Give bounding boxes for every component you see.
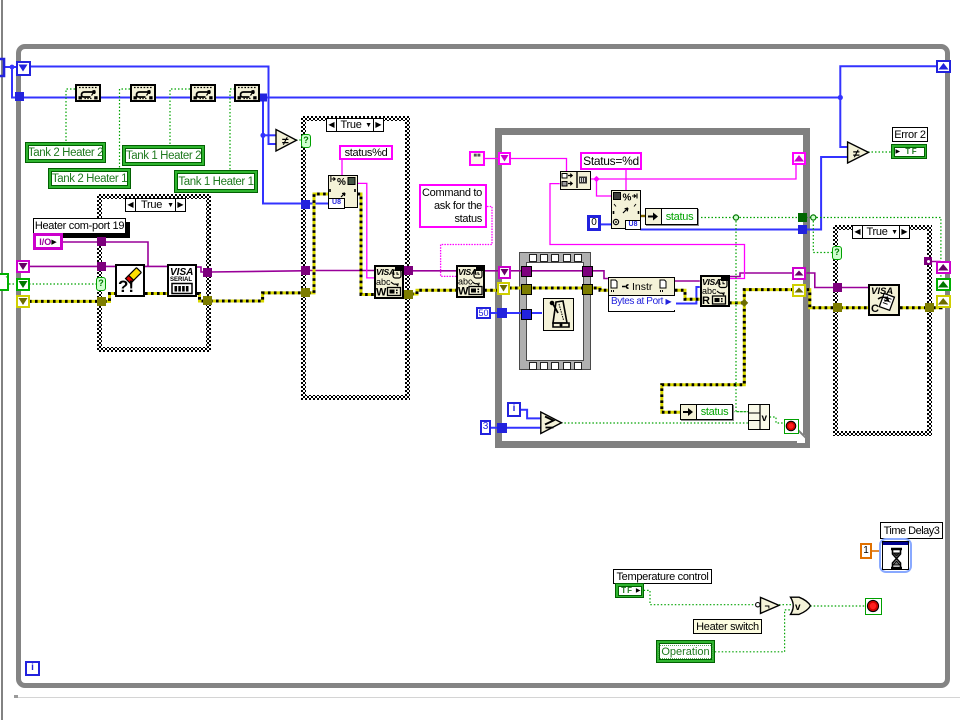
indicator local status 1 xyxy=(645,208,698,225)
wire: purple VISA write2 to frame tunnel xyxy=(484,270,499,272)
right shift register green (up arrow) xyxy=(936,278,951,291)
wire: blue 50 constant into frame and sequence xyxy=(490,312,542,314)
tunnel case selector question mark case3 xyxy=(832,246,842,260)
wire: purple frame tunnel to sequence xyxy=(509,270,522,272)
clipped terminal at left edge xyxy=(0,57,8,79)
node: pink junction diamond xyxy=(593,176,599,182)
node VISA Write 2 xyxy=(456,265,485,298)
local variable Tank 2 Heater 2 xyxy=(75,84,101,102)
label Error 2 xyxy=(892,127,928,142)
label Tank 1 Heater 2 xyxy=(122,145,205,166)
wire: pink status-percent-d label to format node xyxy=(341,160,343,175)
wire: blue top from shift register A xyxy=(30,67,276,145)
constant 1 (orange) xyxy=(860,543,872,559)
tunnel olive on case1 right xyxy=(203,296,212,305)
tunnel purple frame right (up arrow) xyxy=(792,267,806,280)
node: junction dot x263 at not-equal branch xyxy=(260,133,265,138)
wire: blue iteration i to greater-equal xyxy=(521,410,541,419)
wire: pink frame tunnel to string-to-byte node xyxy=(509,159,567,172)
case structure 3 (True) border xyxy=(833,225,932,436)
window bottom notch xyxy=(14,695,18,698)
wire: pink string node output to frame right tunnel xyxy=(591,163,796,179)
label Temperature control xyxy=(613,569,712,584)
wire: blue down to not-equal 2 upper input xyxy=(840,98,847,148)
wire: pink junction down to scan input xyxy=(597,179,612,196)
wire: green dotted branch down to build array xyxy=(736,218,748,412)
control Temperature control TF xyxy=(615,583,644,598)
wire: green dotted status2 to build array xyxy=(733,411,748,413)
wire: purple inside sequence xyxy=(527,270,584,272)
node VISA Configure Serial Port xyxy=(167,264,197,297)
wire: green dotted shift register to case1 selector xyxy=(29,283,96,285)
wire: yellow error VISA read to junction xyxy=(729,301,744,304)
wire: yellow error case2 to VISA write2 xyxy=(411,290,456,294)
wire: blue main horizontal through local variables xyxy=(22,97,840,99)
wire: yellow error case3 to right shift register xyxy=(933,302,941,308)
tunnel blue square frame left xyxy=(497,308,507,318)
tunnel purple frame left (down arrow) xyxy=(498,266,511,279)
gray frame (decoration) around middle section xyxy=(495,128,810,448)
wire: green dotted local variable 4 drop xyxy=(230,89,235,170)
node: yellow junction diamond xyxy=(740,299,748,307)
wire: blue vertical at x263 down to case 2 tunnel xyxy=(263,98,301,204)
wire: yellow error clear errors to VISA serial xyxy=(145,292,167,295)
tunnel olive case3 right xyxy=(925,303,934,312)
gate: OR xyxy=(791,597,811,614)
node: blue junction dot at left xyxy=(10,65,15,70)
tunnel purple on case2 right xyxy=(404,266,413,275)
wire: purple sequence to property node xyxy=(588,271,608,279)
wire: purple case3 top right to shift register xyxy=(930,262,940,267)
wire: green dotted Operation to OR gate xyxy=(715,610,792,652)
wire: purple frame to case3 tunnel xyxy=(807,273,835,288)
indicator Error 2 TF xyxy=(891,144,927,159)
wire: yellow error case1 to case2 xyxy=(210,293,302,301)
tunnel case selector question mark case2 xyxy=(301,134,311,148)
tunnel blue sequence left xyxy=(521,309,532,320)
tunnel olive on case2 left xyxy=(301,288,310,297)
svg-text:W: W xyxy=(376,287,387,298)
constant 50 xyxy=(476,307,491,319)
wire: green dotted temperature control to NOT gate xyxy=(644,590,755,604)
wire: green dotted frame tunnel across to right shift register xyxy=(806,218,941,279)
wire: blue Bytes at Port to VISA read count xyxy=(675,287,700,304)
gate: not-equal 1 xyxy=(276,130,297,152)
window bottom faint line xyxy=(14,697,960,698)
svg-text:R: R xyxy=(702,295,710,305)
case structure 2 (True) border xyxy=(301,116,410,400)
filmstrip sprocket holes bottom xyxy=(529,362,537,370)
right shift register yellow (up arrow) xyxy=(936,295,951,308)
wire: blue into case2 U8 input xyxy=(305,203,328,205)
wire: purple case3 to VISA close xyxy=(840,287,868,289)
svg-text:abc: abc xyxy=(376,277,391,287)
case3 selector label True xyxy=(852,225,910,239)
svg-text:SERIAL: SERIAL xyxy=(170,277,192,283)
tunnel olive on case2 right xyxy=(404,290,413,299)
wire: yellow error junction up to frame right tunnel xyxy=(744,290,793,303)
wire: yellow error junction down around to status local xyxy=(662,303,745,412)
label Tank 1 Heater 1 xyxy=(174,170,258,193)
case structure 1 (True) border xyxy=(97,194,211,352)
wire: yellow error VISA write2 to frame tunnel xyxy=(484,289,499,292)
wire: green dotted NOT gate to OR gate xyxy=(779,604,793,606)
wire: pink format node output down to VISA write1 xyxy=(358,183,375,278)
tunnel blue frame left lower xyxy=(497,423,507,433)
tunnel olive sequence right xyxy=(582,284,593,295)
iteration terminal i inside frame xyxy=(507,402,521,417)
tunnel purple on case1 left (upper) xyxy=(97,237,106,246)
clipped green boolean at left edge xyxy=(0,273,9,291)
node: green junction circle right xyxy=(811,215,816,220)
wire: green dotted local variable 2 drop xyxy=(120,89,131,168)
tunnel olive frame left (down arrow) xyxy=(497,282,510,295)
wire: olive scan value output to status indicator xyxy=(640,215,646,217)
wire: purple left shift register to case1 xyxy=(29,265,97,267)
wire: purple property node to VISA read xyxy=(675,280,700,282)
wire: pink command label S-path to VISA write2 xyxy=(441,207,492,277)
svg-text:v: v xyxy=(761,413,767,424)
gate: NOT xyxy=(756,597,779,613)
tunnel purple case3 left xyxy=(833,283,842,292)
wire: blue status byte to not-equal 2 lower input xyxy=(807,157,848,230)
wire: blue to not-equal 1 upper input xyxy=(263,134,276,136)
iteration terminal i of while loop xyxy=(25,661,40,676)
gate: not-equal 2 xyxy=(848,142,869,163)
wire: purple VISA read to frame right tunnel xyxy=(729,273,793,277)
wire: yellow error format node down to VISA write1 xyxy=(358,194,375,295)
wire: blue up to right shift register xyxy=(840,66,936,97)
wire: yellow error VISA close to case3 right tunnel xyxy=(900,306,926,309)
wire: yellow error inside case1 to clear errors xyxy=(104,294,115,302)
wire: green dotted OR gate to stop terminal xyxy=(810,605,865,607)
svg-text:%: % xyxy=(623,193,632,204)
tunnel olive sequence left xyxy=(521,284,532,295)
wire: green dotted local variable 1 drop xyxy=(66,89,75,142)
node Clear Errors (question-exclamation with eraser) xyxy=(115,264,145,297)
tunnel olive frame right (up arrow) xyxy=(792,284,806,297)
wire: green dotted greater-equal to build array input 2 xyxy=(561,422,748,424)
case2 selector label True xyxy=(326,118,384,132)
tunnel purple on case1 left (lower) xyxy=(97,262,106,271)
tunnel purple sequence left xyxy=(521,266,532,277)
tunnel case selector question mark case1 xyxy=(96,277,106,291)
wire: blue scan U8 output to frame tunnel xyxy=(640,229,800,231)
wire: yellow error case3 to VISA close xyxy=(840,306,868,309)
node String to Byte Array xyxy=(560,171,591,190)
wire: yellow error inside sequence xyxy=(527,287,584,290)
tunnel blue square frame right xyxy=(798,225,807,234)
control Operation xyxy=(656,640,715,663)
node Scan Value xyxy=(611,190,641,229)
wire: green dotted build array to loop stop terminal xyxy=(770,417,784,423)
svg-text:W: W xyxy=(458,286,469,297)
gray frame corner notch xyxy=(797,435,805,443)
svg-text:≠: ≠ xyxy=(853,147,860,161)
tunnel purple sequence right xyxy=(582,266,593,277)
wire: pink string constant to frame tunnel xyxy=(484,158,500,160)
wire: purple through case2 to VISA write 1 xyxy=(308,270,375,272)
left shift register green (down arrow) xyxy=(16,278,30,291)
local variable Tank 2 Heater 1 xyxy=(130,84,156,102)
left shift register purple (down arrow) xyxy=(16,260,30,273)
node Format Value (percent) xyxy=(328,175,358,208)
wire: yellow error inside case2 up to format node xyxy=(308,194,328,293)
express VI Time Delay xyxy=(879,538,912,573)
wire: green dotted status indicator to frame tunnel xyxy=(698,217,799,219)
label status%d xyxy=(339,145,393,160)
local variable Tank 1 Heater 2 xyxy=(190,84,216,102)
node: junction dot x840 xyxy=(838,95,843,100)
tunnel blue square on left border xyxy=(15,92,24,101)
right shift register purple (up arrow) xyxy=(936,261,951,274)
node VISA Write 1 xyxy=(374,265,404,299)
wire: yellow error VISA serial to case1 right tunnel xyxy=(197,294,207,302)
wire: yellow error sequence to property node xyxy=(588,288,608,290)
label Tank 2 Heater 1 xyxy=(48,168,131,189)
node VISA Close xyxy=(868,284,900,316)
svg-text:Instr: Instr xyxy=(632,281,653,293)
constant command string (pink) xyxy=(469,151,485,166)
svg-text:v: v xyxy=(795,602,801,613)
label Time Delay3 xyxy=(880,522,943,539)
constant 0 xyxy=(587,215,601,231)
tunnel olive case3 left xyxy=(833,303,842,312)
local variable Tank 1 Heater 1 xyxy=(234,84,260,102)
svg-text:%: % xyxy=(337,177,346,188)
window left edge line xyxy=(1,0,3,720)
wire: blue 3 constant to greater-equal xyxy=(489,427,541,429)
flat sequence filmstrip frame xyxy=(519,252,591,370)
wire: yellow error frame right tunnel to case3 xyxy=(807,290,834,308)
wire: blue 0 constant to scan xyxy=(599,223,611,225)
wire: green dotted left boolean into loop xyxy=(9,283,17,285)
wire: purple VISA write1 out to case2 tunnel xyxy=(404,270,410,272)
node Property Node Bytes at Port xyxy=(608,277,675,312)
wire: blue branch down to lower shift register square xyxy=(12,67,17,98)
tunnel purple on case1 right xyxy=(203,268,212,277)
wire: orange 1 constant to time delay xyxy=(871,550,880,552)
filmstrip sprocket holes top xyxy=(529,254,537,262)
stop terminal inside frame xyxy=(784,419,799,434)
constant 3 xyxy=(480,420,491,435)
tunnel purple on case2 left xyxy=(301,266,310,275)
shift register left blue (down arrow) xyxy=(16,61,31,76)
wire: purple inside case1 upper branch xyxy=(104,242,148,266)
wire: purple VISA serial out to case1 right tunnel xyxy=(197,267,207,272)
label Heater switch xyxy=(693,619,762,634)
wire: green dotted not-equal2 to Error 2 indicator xyxy=(868,151,891,153)
U8 type box xyxy=(328,198,345,209)
svg-text:¬: ¬ xyxy=(765,601,770,611)
svg-text:VISA: VISA xyxy=(376,267,395,277)
label Heater com-port 19 with shadow xyxy=(33,218,126,234)
left shift register yellow (down arrow) xyxy=(16,295,30,308)
node VISA Read xyxy=(700,275,730,307)
tunnel purple small case3 right top xyxy=(924,257,932,265)
indicator local status 2 xyxy=(680,404,733,420)
wire: purple inside case1 to VISA serial xyxy=(104,265,167,267)
wire: purple case1 to case2 xyxy=(210,271,301,272)
wire: green dotted local variable 3 drop xyxy=(170,89,190,145)
wire: green dotted branch down to case3 selector xyxy=(813,218,834,253)
wire: pink Status label to scan format input xyxy=(625,170,627,191)
wire: green dotted not-equal1 to case2 selector xyxy=(296,139,302,141)
wire: blue feed stub from clipped terminal xyxy=(4,66,16,68)
tunnel olive on case1 left xyxy=(97,297,106,306)
U8 type box on scan xyxy=(625,220,641,230)
wire: yellow error property node to VISA read xyxy=(675,290,700,299)
wire: purple case2 to VISA write 2 xyxy=(411,270,456,272)
gate: greater-or-equal xyxy=(541,412,562,434)
label Command to ask for the status xyxy=(419,184,487,228)
case1 selector label True xyxy=(125,198,186,212)
tunnel pink frame left (down arrow) xyxy=(498,152,511,165)
stop terminal main xyxy=(865,598,882,615)
node Build Array xyxy=(748,404,770,430)
svg-text:C: C xyxy=(871,303,879,314)
node: junction dot x263 on main wire xyxy=(259,94,267,102)
tunnel green square frame right xyxy=(798,213,807,222)
wire: yellow error left shift register to case1 xyxy=(29,300,97,303)
wire: yellow error frame tunnel to sequence xyxy=(509,287,522,290)
label Tank 2 Heater 2 xyxy=(25,142,106,163)
shift register right blue (up arrow) xyxy=(936,60,951,73)
wire: purple VISA resource I/O control to case1 xyxy=(62,241,97,243)
svg-text:≠: ≠ xyxy=(282,134,289,148)
node: green junction circle left xyxy=(733,215,738,220)
wire: yellow error VISA write1 to case2 tunnel xyxy=(404,293,410,296)
control I/O VISA resource xyxy=(33,233,63,250)
svg-text:?!: ?! xyxy=(118,277,134,295)
tunnel blue on case2 left xyxy=(301,200,310,209)
tunnel pink frame right (up arrow) xyxy=(792,152,806,165)
wire: pink VISA read buffer up and around to string node input xyxy=(550,184,745,279)
label Status=%d xyxy=(580,152,642,170)
node Wait metronome xyxy=(543,298,574,331)
